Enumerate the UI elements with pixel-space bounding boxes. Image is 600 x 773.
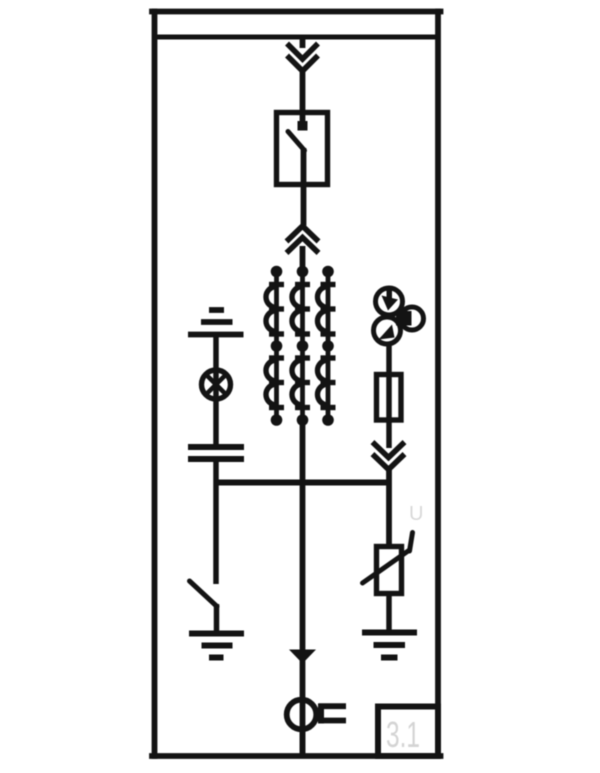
VT winding marks (379, 286, 412, 340)
breaker fixed contact dot (298, 121, 308, 131)
svg-text:3.1: 3.1 (386, 714, 420, 755)
wire socket to bottom frame (300, 729, 306, 757)
wire chevrons to arrester (386, 469, 392, 548)
inverted earth symbol (voltage indicator pickup) (188, 310, 244, 335)
surge arrester (varistor) (363, 533, 413, 594)
earth (right) (362, 633, 417, 658)
drawout arrow (double chevron up) (289, 226, 317, 251)
breaker open blade (288, 132, 305, 151)
wire breaker to lower chevrons (301, 148, 307, 226)
fuse F (377, 375, 402, 421)
wire chevrons to CT (300, 246, 306, 272)
wire blade to earth (214, 604, 220, 634)
wire earth to lamp (213, 335, 219, 448)
current transformer CT2 (center column) (292, 266, 310, 426)
scheme number box (378, 707, 438, 757)
cable test socket (circle with plug prongs) (287, 700, 346, 730)
wire arrester to earth (386, 593, 392, 633)
circuit breaker enclosure (277, 113, 328, 185)
indicator lamp (202, 370, 231, 399)
wire CT2 to bottom (300, 420, 306, 757)
svg-text:U: U (409, 503, 423, 525)
incoming arrow (double chevron down) (289, 46, 316, 72)
withdrawal arrow (double chevron down) (375, 444, 403, 470)
top panel divider line (153, 35, 441, 40)
wire capacitor to earthing switch (213, 459, 219, 584)
flow arrow (solid triangle) (289, 650, 316, 664)
cabinet frame outline (152, 12, 441, 757)
current transformer CT3 (right column) (318, 266, 336, 426)
current transformer CT1 (left column) (266, 266, 284, 426)
bus tie wire (horizontal) (214, 480, 392, 486)
earth (left) (189, 634, 244, 658)
earthing switch open blade (190, 581, 218, 607)
wire arrow to breaker box (300, 70, 306, 114)
capacitor divider C (188, 447, 244, 459)
wire incoming feeder (300, 39, 306, 48)
wire VT to fuse (386, 343, 392, 448)
voltage transformer (three interlocked windings) (374, 288, 424, 344)
wire box top to contact (300, 112, 306, 124)
